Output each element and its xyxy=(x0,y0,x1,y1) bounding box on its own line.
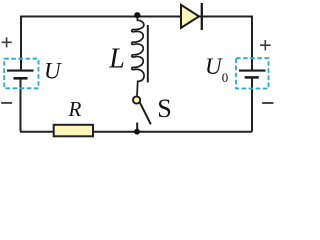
minus sign left xyxy=(1,102,12,104)
wire right column upper xyxy=(251,16,253,70)
wire top xyxy=(21,16,252,18)
svg-text:0: 0 xyxy=(222,70,229,85)
diode cathode bar xyxy=(201,3,203,30)
plus sign right xyxy=(260,40,271,50)
switch S bottom stub xyxy=(136,123,138,133)
diode triangle xyxy=(181,5,199,28)
svg-text:U: U xyxy=(205,54,223,79)
inductor L core line xyxy=(147,25,149,83)
battery U dashed box xyxy=(4,59,38,89)
battery U long plate xyxy=(7,70,34,72)
minus sign right xyxy=(262,102,273,104)
node junction top xyxy=(134,12,140,18)
plus sign left xyxy=(2,37,12,47)
resistor R xyxy=(54,125,93,137)
switch S lever xyxy=(140,102,151,124)
wire right column lower xyxy=(251,78,253,132)
svg-text:U: U xyxy=(44,58,62,83)
inductor L coil xyxy=(132,17,144,96)
wire left lower xyxy=(20,79,22,132)
wire left column xyxy=(20,16,22,70)
svg-text:L: L xyxy=(108,44,125,75)
svg-text:R: R xyxy=(68,97,82,121)
node junction bottom xyxy=(134,129,140,135)
battery U0 long plate xyxy=(239,70,266,72)
svg-text:S: S xyxy=(157,94,171,123)
battery U short plate xyxy=(14,77,28,80)
battery U0 short plate xyxy=(245,76,259,79)
battery U0 dashed box xyxy=(236,58,269,88)
wire bottom xyxy=(20,131,252,133)
switch S pivot circle xyxy=(133,96,140,103)
